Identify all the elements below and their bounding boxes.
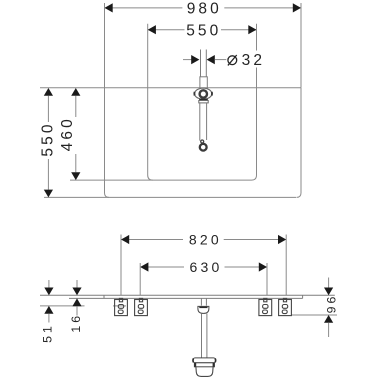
basin top edge with left extension: [40, 87, 301, 89]
bowl bottom edge with left extension: [70, 179, 252, 181]
dim 550 top line: [148, 29, 257, 31]
drain pull ring: [200, 144, 207, 151]
dim 630 line: [140, 266, 267, 268]
svg-text:16: 16: [69, 313, 83, 333]
svg-text:51: 51: [40, 323, 54, 343]
dim 51 line top: [48, 280, 50, 288]
trap band: [194, 363, 214, 367]
drain rod: [200, 103, 207, 141]
bracket 3: [259, 298, 272, 315]
dim 820 arrow left: [121, 235, 129, 244]
extension line 820 right: [285, 235, 287, 296]
bowl left edge: [148, 24, 153, 180]
dim 51 arrow up: [44, 306, 53, 314]
console plate left end: [103, 295, 105, 298]
drain collar: [199, 101, 208, 103]
bracket 1: [115, 298, 128, 315]
siphon tailpipe: [202, 313, 207, 358]
dim O32 right arrow: [207, 55, 215, 64]
siphon connector: [201, 298, 206, 305]
basin right edge lower: [297, 88, 302, 198]
drain collar dark band: [199, 99, 208, 101]
trap band dark ends: [194, 363, 196, 367]
drain eye lens: [194, 88, 212, 99]
dim 630 arrow right: [259, 262, 267, 271]
dim 96 arrow up: [324, 315, 333, 323]
dim 550 left arrow down: [44, 190, 53, 198]
dim 460 arrow down: [71, 172, 80, 180]
dim 550 left vertical line: [47, 96, 49, 190]
svg-text:550: 550: [186, 22, 221, 39]
dim O32 label: [228, 55, 237, 65]
dim 980 arrow left: [105, 3, 113, 12]
console plate bottom edge with left extension: [69, 297, 303, 299]
dim 96 line top: [328, 278, 330, 288]
dim 96 line bottom: [328, 323, 330, 337]
reference line bracket bottom right: [291, 314, 337, 316]
dim 550 left arrow up: [44, 88, 53, 96]
trap flange dark ends: [192, 358, 194, 362]
svg-text:550: 550: [39, 121, 56, 156]
basin left edge lower: [105, 88, 110, 198]
dim 51 line bottom: [48, 314, 50, 323]
dim 550 top arrow right: [248, 25, 256, 34]
extension line 820 left: [120, 235, 122, 296]
dim 16 arrow down: [72, 288, 81, 296]
dim 51 arrow down: [44, 288, 53, 296]
extension line 630 left: [139, 263, 141, 295]
dim 820 line: [121, 239, 286, 241]
dim 460 arrow up: [71, 88, 80, 96]
svg-text:980: 980: [187, 1, 222, 18]
drain pipe upper: [201, 50, 207, 77]
bracket 2: [135, 298, 148, 315]
dim 630 arrow left: [140, 262, 148, 271]
extension line 630 right: [266, 263, 268, 295]
reference line 51 (slot axis): [40, 305, 126, 307]
dim 980 line: [105, 7, 302, 9]
extension line 980 left / basin left edge upper: [104, 3, 106, 88]
siphon nut dark band: [199, 307, 207, 309]
dim 96 arrow down: [324, 288, 333, 296]
extension line 980 right / basin right edge upper: [300, 3, 302, 88]
dim O32 left arrow: [183, 59, 192, 61]
siphon nut: [198, 306, 209, 313]
svg-text:32: 32: [242, 52, 265, 69]
drain coupling: [200, 77, 207, 88]
dim 16 line top: [76, 280, 78, 288]
dim 16 line bottom: [76, 306, 78, 315]
dim 550 top arrow left: [148, 25, 156, 34]
dim 820 arrow right: [278, 235, 286, 244]
dim 980 arrow right: [293, 3, 301, 12]
trap cup: [196, 367, 213, 377]
dim 460 vertical line: [75, 96, 77, 173]
svg-text:460: 460: [59, 116, 76, 151]
basin bottom edge with left extension: [44, 196, 296, 198]
drain eye ring: [200, 90, 207, 97]
trap flange: [193, 358, 216, 363]
drain rod nub: [201, 140, 204, 143]
dim 16 arrow up: [72, 298, 81, 306]
svg-text:630: 630: [190, 259, 223, 275]
bracket 4: [279, 298, 292, 315]
drain eye lens dark tips: [193, 92, 195, 96]
bowl right edge: [256, 24, 258, 51]
console plate right end: [302, 295, 304, 298]
svg-text:96: 96: [325, 294, 339, 314]
svg-text:820: 820: [189, 231, 222, 247]
console plate top edge with extensions: [40, 294, 335, 296]
